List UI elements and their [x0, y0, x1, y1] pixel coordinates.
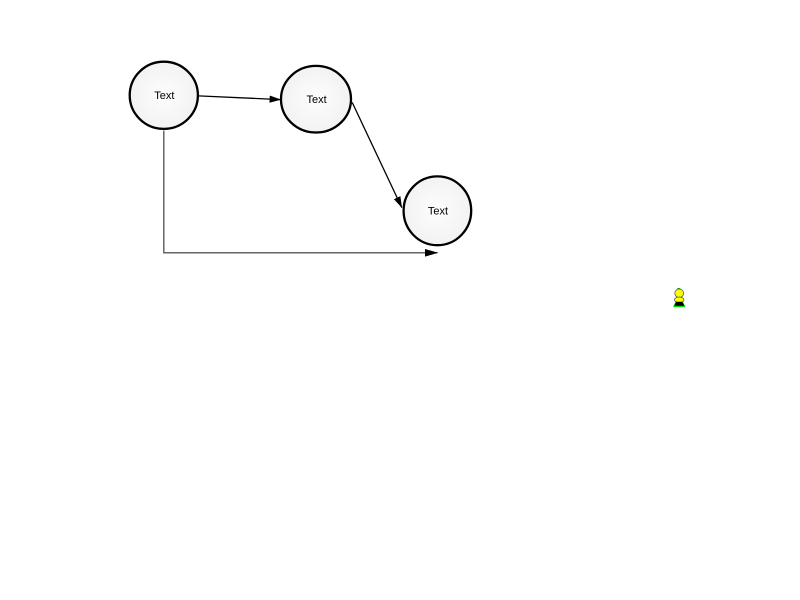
node circle 1 "Text" [130, 62, 198, 129]
svg-text:Text: Text [428, 206, 448, 218]
wire: node1 bottom -> down -> right, arrow to below node3 [164, 131, 438, 253]
svg-text:Text: Text [307, 94, 327, 106]
wire: node2 -> node3 arrow [352, 102, 402, 207]
person icon (yellow head over shoulders, black body with green outline) [673, 288, 686, 307]
svg-text:Text: Text [154, 90, 174, 102]
wire: node1 -> node2 arrow [199, 96, 281, 100]
node circle 2 "Text" [281, 66, 351, 133]
node circle 3 "Text" [404, 176, 472, 245]
